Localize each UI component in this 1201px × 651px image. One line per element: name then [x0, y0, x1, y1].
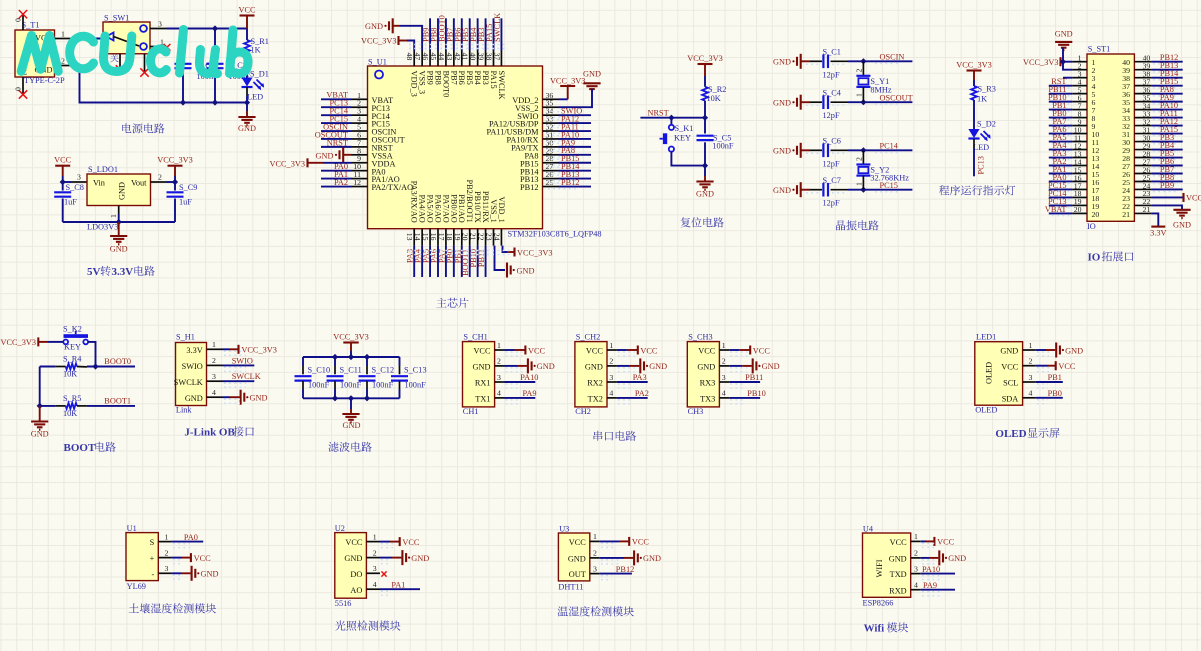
svg-text:24: 24 [492, 233, 501, 241]
svg-text:16: 16 [429, 233, 438, 241]
ground GND U1 pin3 [172, 566, 219, 581]
svg-text:22: 22 [477, 233, 486, 241]
svg-text:BOOT0: BOOT0 [104, 357, 131, 366]
wire ldo bottom rail [63, 219, 175, 225]
T1 pin 1 [55, 30, 71, 39]
svg-text:PC13: PC13 [977, 156, 986, 174]
svg-text:PB4: PB4 [473, 71, 482, 86]
wire NRST node [640, 108, 708, 120]
svg-text:23: 23 [485, 233, 494, 241]
wire U1 pin1 PA0 [172, 533, 204, 542]
svg-text:GND: GND [537, 362, 555, 371]
svg-text:S_K2: S_K2 [63, 325, 82, 334]
capacitor S_C9 1uF [167, 182, 198, 222]
svg-text:DHT11: DHT11 [558, 583, 583, 592]
dotted marks U2 [381, 544, 395, 596]
connector LED1 OLED body [975, 333, 1023, 415]
power VCC_3V3 ldo [157, 156, 193, 183]
svg-text:41: 41 [461, 53, 470, 61]
wire S_CH1 pin3 [505, 373, 539, 382]
svg-text:2: 2 [722, 357, 726, 366]
svg-text:PB11/RX: PB11/RX [481, 191, 490, 223]
port VCC U3 pin1 [600, 537, 650, 547]
ST1 right wires and net labels [1151, 53, 1182, 192]
svg-text:VCC: VCC [632, 538, 650, 547]
wire S_CH2 pin3 [617, 373, 648, 382]
ground GND S_CH2 pin2 [617, 358, 667, 373]
caption 5V to 3.3V [87, 266, 155, 278]
svg-text:CH1: CH1 [463, 407, 479, 416]
svg-text:SWCLK: SWCLK [493, 13, 502, 42]
svg-text:S_CH1: S_CH1 [463, 333, 487, 342]
caption light sensor module [335, 621, 400, 631]
svg-text:KEY: KEY [64, 343, 81, 352]
regulator S_LDO1 [87, 165, 151, 206]
svg-text:GND: GND [568, 555, 586, 564]
T1 pin 2 [55, 57, 71, 66]
svg-text:GND: GND [185, 394, 203, 403]
svg-text:PB1/AO: PB1/AO [457, 194, 466, 223]
svg-text:PB12: PB12 [520, 183, 538, 192]
caption J-Link OB [184, 426, 254, 438]
svg-text:1: 1 [373, 532, 377, 541]
ground GND ldo [110, 222, 128, 254]
svg-text:SDA: SDA [1002, 394, 1019, 403]
svg-text:VCC_3V3: VCC_3V3 [550, 76, 586, 85]
svg-text:10K: 10K [63, 370, 77, 379]
svg-text:GND: GND [643, 554, 661, 563]
caption serial circuit [594, 431, 636, 441]
ground GND S_CH1 pin2 [505, 358, 555, 373]
svg-text:8MHz: 8MHz [870, 85, 892, 94]
svg-text:47: 47 [413, 53, 422, 61]
U2 pins 1-4 [344, 532, 380, 594]
ground GND U4 pin2 [921, 550, 966, 565]
svg-text:ESP8266: ESP8266 [863, 599, 894, 608]
svg-text:LDO3V3: LDO3V3 [87, 223, 118, 232]
svg-text:GND: GND [649, 362, 667, 371]
svg-text:TXD: TXD [890, 570, 907, 579]
capacitor S_C13 100nF [391, 357, 427, 398]
ground GND reset [696, 166, 714, 199]
mcu bottom pins 13-24 [405, 179, 506, 245]
svg-text:SCL: SCL [1003, 379, 1018, 388]
svg-text:4: 4 [212, 388, 216, 397]
svg-text:OSCIN: OSCIN [880, 53, 905, 62]
svg-text:1: 1 [109, 214, 118, 218]
svg-text:PB11: PB11 [477, 249, 486, 267]
svg-text:GND: GND [889, 555, 907, 564]
caption program run LED [939, 185, 1015, 195]
svg-text:GND: GND [773, 99, 791, 108]
S_CH1 pins 1-4 [473, 341, 505, 404]
svg-text:42: 42 [453, 53, 462, 61]
svg-text:PA10: PA10 [922, 565, 940, 574]
svg-text:45: 45 [429, 53, 438, 61]
svg-text:2: 2 [1029, 357, 1033, 366]
svg-text:SWCLK: SWCLK [497, 71, 506, 100]
wire T1 pin2 to bottom rail [71, 66, 184, 103]
svg-text:KEY: KEY [674, 134, 691, 143]
svg-text:PB10/TX: PB10/TX [473, 191, 482, 223]
dotted marks U3 [601, 543, 620, 579]
svg-text:2: 2 [497, 357, 501, 366]
svg-text:S_H1: S_H1 [176, 333, 195, 342]
svg-text:GND: GND [517, 267, 535, 276]
svg-text:1: 1 [212, 340, 216, 349]
port VCC U4 pin1 [921, 537, 955, 547]
svg-text:PB1: PB1 [1048, 373, 1062, 382]
power VCC_3V3 indicator [956, 61, 992, 87]
svg-text:VCC: VCC [640, 346, 658, 355]
svg-text:VCC: VCC [345, 538, 363, 547]
svg-text:Link: Link [176, 406, 193, 415]
mcu top wires and net labels [422, 13, 502, 51]
caption wifi module [864, 622, 909, 634]
svg-text:PB11: PB11 [745, 373, 763, 382]
connector S_CH2 body [575, 333, 607, 416]
svg-text:VCC_3V3: VCC_3V3 [517, 249, 553, 258]
svg-text:PB5: PB5 [465, 71, 474, 85]
svg-text:GND: GND [948, 554, 966, 563]
SW1 pin 3 [150, 20, 167, 29]
wire io pin3 stub [1063, 77, 1072, 79]
module U4 ESP8266 body [863, 524, 911, 607]
key S_K1 [660, 118, 706, 166]
svg-text:GND: GND [697, 363, 715, 372]
svg-text:YL69: YL69 [127, 582, 146, 591]
svg-text:PA10: PA10 [520, 373, 538, 382]
LED1 pins 1-4 [1000, 341, 1035, 404]
port VCC_3V3 at VDDA pin9 [270, 158, 352, 168]
svg-text:VCC: VCC [698, 347, 716, 356]
svg-text:GND: GND [773, 147, 791, 156]
svg-text:GND: GND [365, 22, 383, 31]
svg-text:VCC_3V3: VCC_3V3 [1, 338, 37, 347]
svg-text:CH2: CH2 [575, 407, 591, 416]
svg-text:Vout: Vout [131, 179, 147, 188]
wire filter top rail [303, 354, 400, 360]
capacitor S_C7 12pF with GND and PC15 [773, 176, 912, 208]
wire S_CH1 pin4 [505, 389, 537, 398]
svg-text:100nF: 100nF [308, 381, 330, 390]
module U2 5516 body [335, 524, 367, 608]
port VCC U2 pin1 [380, 537, 420, 547]
H1 pins 1-4 [174, 340, 223, 403]
svg-text:PB9: PB9 [425, 71, 434, 85]
svg-text:PA2: PA2 [635, 389, 649, 398]
ground GND U3 pin2 [600, 550, 661, 565]
svg-text:S_C7: S_C7 [823, 176, 841, 185]
svg-text:3: 3 [914, 564, 918, 573]
port VCC S_CH2 pin1 [617, 346, 658, 356]
crystal S_Y1 8MHz [855, 61, 892, 102]
svg-text:S_C4: S_C4 [823, 88, 842, 97]
dotted marks S_CH1 [506, 352, 523, 404]
power VCC ldo [54, 156, 72, 183]
svg-text:TYPE-C-2P: TYPE-C-2P [24, 76, 65, 85]
svg-text:S_R5: S_R5 [63, 394, 81, 403]
svg-text:3: 3 [1029, 373, 1033, 382]
caption crystal circuit [836, 220, 879, 230]
svg-text:AO: AO [350, 586, 362, 595]
svg-text:GND: GND [762, 362, 780, 371]
svg-text:4: 4 [914, 581, 918, 590]
svg-text:+: + [150, 554, 155, 563]
svg-text:RX2: RX2 [587, 379, 603, 388]
svg-text:OLED: OLED [975, 406, 997, 415]
svg-text:3: 3 [77, 173, 81, 182]
svg-text:GND: GND [585, 363, 603, 372]
svg-text:SWIO: SWIO [232, 356, 253, 365]
svg-text:S_CH3: S_CH3 [688, 333, 712, 342]
ground GND at VSS_2 [559, 70, 601, 108]
ground GND filter [342, 398, 360, 430]
svg-text:PA15: PA15 [489, 71, 498, 89]
power VCC top [238, 6, 256, 29]
caption BOOT circuit [64, 442, 116, 454]
svg-text:S_D1: S_D1 [250, 70, 269, 79]
svg-text:S_C8: S_C8 [66, 183, 84, 192]
svg-text:PA3: PA3 [633, 373, 647, 382]
svg-text:12pF: 12pF [823, 70, 840, 79]
S_CH2 pins 1-4 [585, 341, 617, 404]
svg-text:2: 2 [165, 548, 169, 557]
ST1 right pins 40-21 [1122, 54, 1151, 219]
svg-text:1: 1 [1029, 341, 1033, 350]
S_CH3 pins 1-4 [697, 341, 729, 404]
svg-text:21: 21 [1143, 205, 1151, 214]
switch S_SW1 [103, 14, 150, 54]
svg-text:1: 1 [593, 532, 597, 541]
wire U4 pin4 PA9 [921, 581, 955, 590]
port VCC io pin23 [1151, 193, 1201, 203]
svg-text:VCC: VCC [586, 347, 604, 356]
svg-text:GND: GND [238, 124, 256, 133]
svg-text:38: 38 [485, 53, 494, 61]
svg-text:OSCOUT: OSCOUT [880, 93, 913, 102]
svg-text:S_C13: S_C13 [404, 366, 427, 375]
svg-text:TX1: TX1 [475, 395, 490, 404]
port VCC_3V3 io pin1 [1023, 57, 1072, 67]
svg-text:S_C11: S_C11 [340, 366, 362, 375]
svg-text:TX2: TX2 [588, 395, 603, 404]
svg-text:VCC: VCC [54, 156, 72, 165]
mcu S_U1 body [368, 58, 602, 239]
svg-text:PB0: PB0 [1048, 389, 1062, 398]
svg-text:2: 2 [212, 356, 216, 365]
svg-text:VCC_3V3: VCC_3V3 [270, 159, 306, 168]
svg-text:4: 4 [1029, 389, 1033, 398]
caption OLED display [995, 428, 1059, 440]
capacitor S_C5 100nF [697, 118, 734, 169]
svg-text:3.3V: 3.3V [1150, 229, 1166, 238]
resistor S_R4 10K [40, 355, 135, 379]
port VCC S_CH1 pin1 [505, 346, 546, 356]
svg-text:3: 3 [165, 564, 169, 573]
MCUclub logo text [21, 30, 248, 74]
svg-text:VCC_3V3: VCC_3V3 [157, 156, 193, 165]
svg-text:DO: DO [350, 570, 362, 579]
svg-text:GND: GND [343, 421, 361, 430]
wire U3 pin3 PB12 [600, 565, 634, 574]
wire S_CH3 pin3 [729, 373, 763, 382]
power VCC_3V3 at VDD_2 [550, 76, 586, 99]
LED S_D2 [968, 120, 996, 177]
svg-text:3.3V: 3.3V [186, 346, 202, 355]
svg-text:PA5/AO: PA5/AO [425, 195, 434, 223]
svg-text:15: 15 [421, 233, 430, 241]
svg-text:3: 3 [212, 372, 216, 381]
svg-text:U3: U3 [559, 524, 569, 533]
svg-text:PB10: PB10 [747, 389, 765, 398]
dotted marks mcu bottom [409, 251, 512, 255]
svg-text:S_R4: S_R4 [63, 355, 82, 364]
svg-text:PA2/TX/AO: PA2/TX/AO [372, 183, 414, 192]
wire bottom rail [183, 102, 247, 104]
svg-text:TX3: TX3 [700, 395, 715, 404]
wire vcc to LDO pin3 [60, 179, 71, 185]
svg-text:4: 4 [497, 389, 501, 398]
svg-text:12pF: 12pF [823, 111, 840, 120]
svg-text:Vin: Vin [93, 179, 106, 188]
caption main chip [436, 298, 468, 308]
U1 pins 1-3 [150, 532, 172, 579]
dotted marks U4 [922, 543, 940, 595]
svg-text:0: 0 [14, 18, 23, 22]
svg-text:S_C12: S_C12 [372, 366, 395, 375]
svg-text:GND: GND [773, 58, 791, 67]
svg-text:PA9: PA9 [923, 581, 937, 590]
svg-text:43: 43 [445, 53, 454, 61]
wire SWIO jlink pin2 [223, 356, 255, 365]
svg-text:PA3/RX/AO: PA3/RX/AO [410, 181, 419, 223]
ground GND boot [31, 406, 49, 439]
port VCC U1 pin2 [172, 553, 212, 563]
ground GND at VSS_1 [495, 246, 535, 278]
mcu bottom wires and net labels [406, 246, 486, 277]
svg-text:2: 2 [855, 69, 864, 73]
ground GND power [238, 103, 256, 134]
net label BOOT1 [104, 396, 131, 405]
svg-text:2: 2 [61, 57, 65, 66]
wire SW1 pin3 to VCC rail [167, 28, 248, 30]
svg-text:13: 13 [405, 233, 414, 241]
svg-text:GND: GND [344, 554, 362, 563]
svg-text:PB9: PB9 [1160, 181, 1174, 190]
resistor S_R3 1K [971, 85, 996, 130]
svg-text:12pF: 12pF [823, 159, 840, 168]
connector S_CH3 body [687, 333, 719, 416]
key S_K2 [63, 325, 88, 352]
svg-text:Wifi: Wifi [864, 623, 885, 635]
connector S_T1 TYPE-C-2P [15, 21, 65, 86]
svg-text:NRST: NRST [327, 138, 348, 147]
svg-text:OLED: OLED [985, 362, 994, 384]
svg-text:14: 14 [413, 233, 422, 241]
svg-text:VCC_3V3: VCC_3V3 [1023, 58, 1059, 67]
port VCC oled pin2 [1036, 361, 1076, 371]
svg-text:12: 12 [353, 178, 361, 187]
svg-text:100nF: 100nF [340, 381, 362, 390]
resistor S_R5 10K [40, 394, 135, 418]
caption reset circuit [681, 217, 724, 227]
caption soil moisture module [129, 603, 216, 613]
wire T1 pin1 to SW1 [71, 38, 104, 40]
svg-text:44: 44 [437, 53, 446, 61]
svg-text:GND: GND [773, 186, 791, 195]
ST1 left wires and net labels [1045, 77, 1073, 216]
svg-text:SWIO: SWIO [182, 362, 203, 371]
mcu left pins 1-12 [352, 91, 414, 192]
svg-text:SWCLK: SWCLK [174, 378, 203, 387]
T1 bottom pin 0 with no-ERC [14, 77, 28, 99]
U3 pins 1-3 [568, 532, 600, 579]
svg-text:VCC_3V3: VCC_3V3 [687, 54, 723, 63]
svg-text:S_T1: S_T1 [22, 21, 40, 30]
svg-text:S: S [150, 538, 155, 547]
svg-text:1K: 1K [251, 46, 261, 55]
svg-text:20: 20 [1074, 205, 1082, 214]
ground GND S_CH3 pin2 [729, 358, 779, 373]
connector S_CH1 body [463, 333, 495, 416]
svg-text:2: 2 [373, 548, 377, 557]
svg-text:STM32F103C8T6_LQFP48: STM32F103C8T6_LQFP48 [508, 230, 602, 239]
T1 top pin 0 with no-ERC [14, 10, 28, 30]
svg-text:OLED: OLED [995, 428, 1026, 440]
svg-text:GND: GND [583, 70, 601, 79]
label LDO3V3 [87, 223, 118, 232]
svg-text:GND: GND [110, 245, 128, 254]
svg-text:1: 1 [914, 532, 918, 541]
svg-text:U1: U1 [127, 524, 137, 533]
wire oled pin3 PB1 [1036, 373, 1063, 382]
svg-text:U4: U4 [863, 524, 874, 533]
resistor S_R1 1K [244, 29, 269, 78]
svg-text:46: 46 [421, 53, 430, 61]
power VCC_3V3 filter [333, 333, 369, 358]
LED S_D1 [242, 70, 269, 103]
svg-text:1: 1 [855, 182, 864, 186]
svg-text:1: 1 [609, 341, 613, 350]
svg-text:5516: 5516 [335, 599, 352, 608]
capacitor S_C6 12pF with GND and PC14 [773, 137, 912, 169]
connector S_H1 body [176, 333, 207, 415]
switch label guan [110, 54, 118, 62]
SW1 bottom pin no-connect a [116, 54, 124, 74]
svg-text:VCC_3V3: VCC_3V3 [241, 346, 277, 355]
svg-text:RXD: RXD [889, 586, 907, 595]
svg-text:PC14: PC14 [880, 142, 899, 151]
svg-text:PA4/AO: PA4/AO [418, 195, 427, 223]
svg-text:SWCLK: SWCLK [232, 372, 261, 381]
svg-text:S_D2: S_D2 [977, 120, 996, 129]
capacitor S_C10 100nF [295, 357, 331, 398]
port VCC S_CH3 pin1 [729, 346, 770, 356]
svg-text:PB12: PB12 [616, 565, 634, 574]
svg-text:PA6/AO: PA6/AO [433, 195, 442, 223]
svg-text:PB3: PB3 [481, 71, 490, 85]
port VCC_3V3 boot [1, 337, 64, 346]
svg-text:4: 4 [722, 389, 726, 398]
svg-text:PB2/BOOT1: PB2/BOOT1 [465, 179, 474, 222]
svg-text:21: 21 [469, 233, 478, 241]
svg-text:10K: 10K [707, 94, 721, 103]
capacitor S_C2 [175, 29, 219, 103]
dotted marks S_CH2 [618, 352, 635, 404]
SW1 bottom pin no-connect b [140, 54, 148, 77]
svg-text:VCC: VCC [1186, 194, 1201, 203]
